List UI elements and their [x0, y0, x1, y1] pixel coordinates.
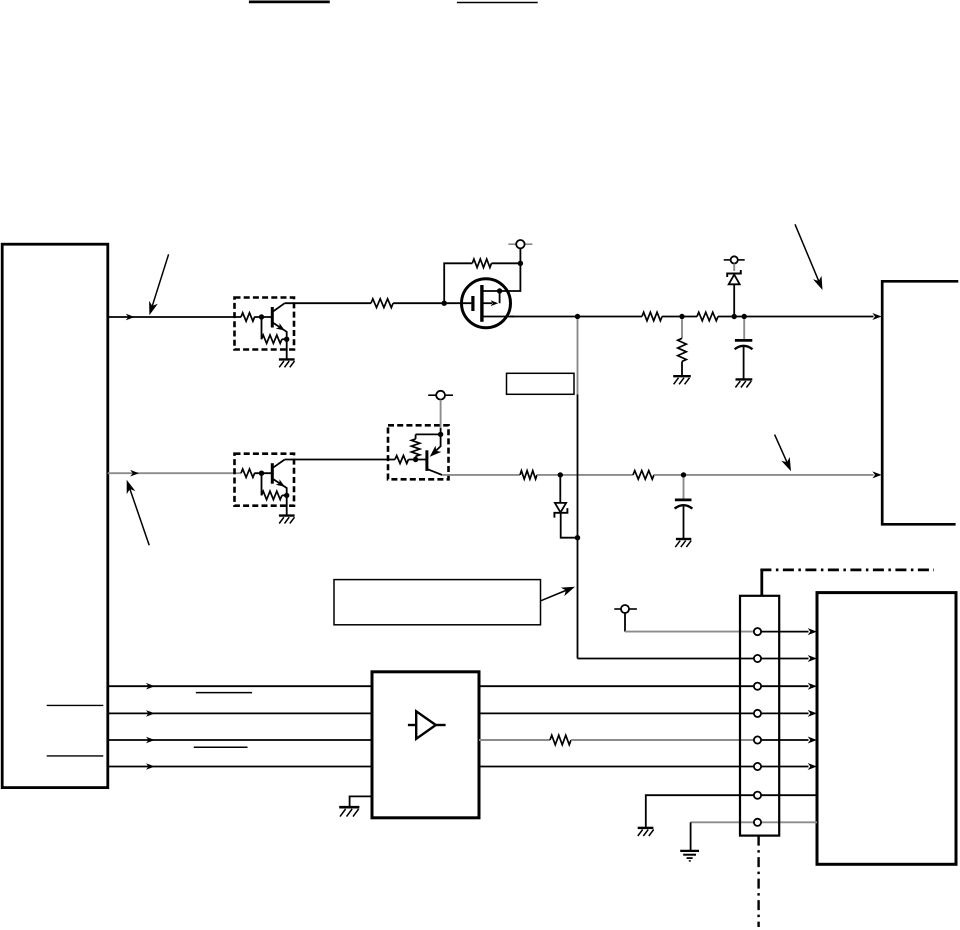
resistor R5 (row 1 series) — [642, 312, 662, 321]
resistor R9 (Q4 base-emitter) — [261, 473, 263, 495]
flow arrow (out 3 into U4) — [808, 737, 817, 744]
flow arrow (out 4 into U4) — [808, 763, 817, 770]
resistor R1 (Q2 base) — [241, 313, 255, 321]
pin label rule (inside U1, lower) — [47, 755, 104, 757]
Q4 emitter — [272, 479, 286, 496]
chassis boundary (horizontal dash-dot) — [760, 569, 934, 572]
resistor R11 (Q3 base-emitter) — [415, 434, 417, 439]
wire R13 to U3 (grey) — [654, 474, 874, 476]
capacitor C2 — [675, 477, 693, 538]
pin label rule (inside U1, upper) — [47, 704, 104, 706]
flow arrow (pin 2 into U4) — [808, 655, 817, 662]
C2 top plate — [675, 499, 692, 502]
resistor R7 (row 1 to ground) — [678, 319, 687, 376]
wire pin 8 drop to earth — [690, 822, 692, 850]
bus wire 4 (U1 to U2) — [108, 766, 372, 768]
wire U2 out 3 (grey) to R14 — [479, 739, 550, 741]
resistor R14 (out 3 series) — [550, 735, 571, 745]
Q1 source lead — [482, 316, 514, 318]
node (zener D1 anode) — [732, 314, 737, 319]
D1 cathode bar — [727, 270, 741, 277]
terminal T2 (zener top) — [724, 256, 745, 263]
J1 pin 7 — [754, 792, 761, 799]
IC U1 (controller block, left) — [2, 244, 108, 787]
Q1 body lead with arrow — [499, 291, 501, 303]
Q2 emitter — [272, 322, 286, 339]
wire Q3 emitter top — [416, 433, 441, 435]
IC U3 (top right, clipped) — [882, 281, 958, 524]
zener diode D2 — [554, 475, 580, 541]
wire Q1 source rail (row 1) — [510, 316, 642, 318]
connector J1 — [740, 596, 779, 836]
wire R12 to R13 (grey) — [537, 474, 633, 476]
annotation arrow A5 (label box to link) — [541, 587, 575, 601]
bus wire 1 (U1 to U2) — [108, 685, 372, 687]
wire C1 to ground — [743, 347, 745, 379]
bus wire 3 (U1 to U2) — [108, 739, 372, 741]
ground (C1) — [735, 379, 752, 387]
node (Q3 base) — [413, 457, 418, 462]
D2 cathode bar — [554, 508, 567, 517]
header rule left (clipped underlined title) — [249, 0, 330, 3]
node (Q3 emitter / terminal) — [438, 432, 443, 437]
Q2 collector — [272, 303, 284, 312]
earth ground (J1 pin 8) — [680, 851, 699, 861]
resistor R2 (Q2 base-emitter) — [261, 317, 263, 339]
J1 pin 3 — [754, 683, 761, 690]
C1 top plate — [735, 339, 752, 342]
annotation arrow A4 — [775, 435, 791, 472]
zener diode D1 — [727, 264, 741, 317]
resistor R8 (Q4 base) — [241, 469, 255, 477]
wire R1 to Q2 base — [254, 316, 271, 318]
wire R8 to Q4 base — [254, 472, 271, 474]
U2 amplifier symbol — [408, 711, 446, 739]
vertical link wire (black segment) — [577, 394, 579, 658]
terminal T1 (supply) — [508, 240, 532, 263]
wire R10 to Q3 base — [408, 459, 425, 461]
flow arrow (pin 1 into U4) — [808, 628, 817, 635]
resistor R3 (Q1 gate series) — [371, 299, 393, 308]
wire Q3 collector rail (grey, row 2) — [442, 474, 520, 476]
wire D2 to vertical link — [561, 513, 578, 538]
capacitor C1 — [735, 319, 753, 379]
resistor R10 (Q3 base) — [395, 456, 408, 464]
J1 pin 6 — [754, 763, 761, 770]
Q1 gate lead — [444, 302, 471, 304]
Q3 base bar — [425, 450, 428, 471]
terminal T4 — [614, 605, 637, 632]
terminal T3 (Q3 emitter supply) — [428, 391, 453, 435]
IC U4 (bottom right) — [817, 593, 956, 865]
node (Q2 emitter) — [284, 337, 289, 342]
wire U2 out 4 to J1/U4 — [479, 766, 809, 768]
Q1 drain lead — [482, 290, 500, 292]
signal name rule (bus 1) — [196, 692, 252, 694]
buffer U2 — [372, 672, 479, 818]
wire U1 pin to Q4 input (row 2, grey net) — [108, 472, 241, 474]
wire vertical link to J1 pin 2 — [578, 658, 809, 660]
ground (U2) — [339, 807, 359, 816]
wire gate node up to R4 — [444, 263, 472, 303]
wire Q2 collector to R3 — [285, 302, 371, 304]
resistor R4 (Q1 gate pull-up) — [472, 259, 491, 268]
node (zener D2 top) — [558, 472, 563, 477]
node (divider tap R7) — [679, 314, 684, 319]
transistor Q4 (digital NPN with built-in resistors) — [235, 454, 295, 524]
node (D2 / vertical link) — [575, 535, 580, 540]
MOSFET Q1 — [444, 279, 514, 328]
transistor Q2 (digital NPN with built-in resistors) — [235, 298, 295, 368]
flow arrow (bus 3) — [146, 737, 155, 744]
flow arrow into U3 (row 2) — [872, 471, 881, 478]
wire U2 to ground — [350, 796, 372, 806]
wire R3 to Q1 gate — [393, 302, 444, 304]
chassis boundary (vertical dash-dot below J1) — [757, 836, 759, 927]
ground (J1 pin 7) — [638, 828, 654, 836]
J1 pin 4 — [754, 710, 761, 717]
J1 pin 5 — [754, 736, 761, 743]
wire D1 anode to row 1 — [733, 284, 735, 316]
node (Q1 gate / R4) — [442, 301, 447, 306]
transistor Q3 (digital PNP with built-in resistors) — [388, 425, 449, 479]
wire U1 pin to Q2 input (row 1) — [108, 316, 241, 318]
vertical link wire (grey segment from row 1 node) — [577, 319, 579, 394]
wire J1 pin 1 to U4 — [758, 631, 809, 633]
D1 body — [729, 275, 740, 285]
wire J1 pin 7 to ground — [646, 795, 817, 827]
flow arrow (out 1 into U4) — [808, 683, 817, 690]
wire R6 to U3 — [718, 316, 874, 318]
Q1 channel bar — [480, 285, 483, 322]
wire R5 to R6 — [662, 316, 697, 318]
annotation arrow A2 — [127, 480, 150, 546]
chassis boundary stub (solid) — [760, 569, 763, 596]
J1 pin 1 — [754, 628, 761, 635]
resistor R6 (row 1 series) — [697, 312, 718, 321]
resistor R12 (row 2 series) — [520, 471, 537, 479]
ground (Q2 emitter) — [279, 358, 295, 360]
annotation arrow A1 — [149, 254, 169, 315]
signal name rule (bus 3) — [194, 746, 248, 748]
Q3 collector — [427, 469, 442, 475]
ground (R7) — [673, 376, 691, 384]
node (Q4 base) — [259, 471, 264, 476]
flow arrow (out 2 into U4) — [808, 710, 817, 717]
wire Q4 collector to Q3 input — [285, 459, 395, 461]
wire Q2 emitter to ground — [286, 339, 288, 359]
Q3 emitter with arrow — [433, 434, 441, 454]
J1 pin 8 — [754, 819, 761, 826]
flow arrow into U3 (row 1) — [872, 313, 881, 320]
bus wire 2 (U1 to U2) — [108, 712, 372, 714]
wire J1 pin 8 (grey) — [691, 821, 817, 823]
node (Q4 emitter) — [284, 493, 289, 498]
annotation arrow A3 — [795, 224, 823, 290]
flow arrow (row 2 input) — [130, 470, 139, 477]
wire R14 to J1/U4 (grey) — [571, 739, 758, 741]
flow arrow (bus 2) — [146, 710, 155, 717]
J1 pin 2 — [754, 655, 761, 662]
ground (Q4 emitter) — [279, 514, 295, 516]
flow arrow (row 1 input) — [126, 314, 135, 321]
resistor R13 (row 2 series) — [633, 471, 654, 480]
node (Q1 drain/body tie) — [497, 288, 502, 293]
wire C2 to ground — [683, 506, 685, 539]
Q4 collector — [272, 460, 284, 469]
node (R4 / supply) — [518, 261, 523, 266]
Q1 gate bar — [471, 296, 474, 311]
node (C2 top) — [681, 472, 686, 477]
wire supply node to Q1 drain — [501, 263, 520, 291]
wire U2 out 1 to J1/U4 — [479, 685, 809, 687]
wire Q4 emitter to ground — [286, 495, 288, 515]
node (row 1 / vertical link) — [575, 314, 580, 319]
ground (C2) — [675, 539, 691, 547]
header rule right (clipped underlined title) — [457, 2, 538, 4]
wire R4 to supply node — [492, 262, 521, 264]
C2 curved plate — [675, 505, 693, 508]
Q4 base bar — [271, 463, 274, 484]
node (Q2 base) — [259, 314, 264, 319]
flow arrow (bus 1) — [146, 683, 155, 690]
C1 curved plate — [735, 346, 753, 349]
label box (note, row 1) — [507, 373, 575, 394]
wire T4 to J1 pin 1 (grey) — [625, 631, 758, 633]
D2 body — [555, 503, 566, 513]
node (C1 top) — [742, 314, 747, 319]
Q2 base bar — [271, 307, 274, 328]
wire U2 out 2 to J1/U4 — [479, 712, 809, 714]
label box (note, lower) — [334, 580, 541, 625]
flow arrow (bus 4) — [146, 763, 155, 770]
